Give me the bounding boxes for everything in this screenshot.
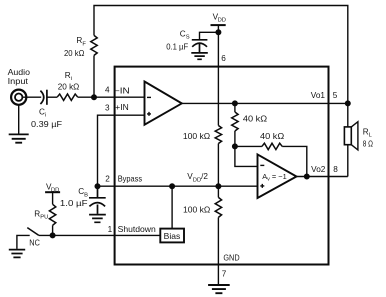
- wire: 40k to inverting node: [234, 131, 236, 146]
- node: shutdown / RPU junction: [50, 233, 55, 238]
- svg-text:5: 5: [333, 91, 338, 100]
- audio jack connector: [11, 90, 26, 105]
- op-amp U1B minus marker: [260, 164, 264, 166]
- node: Vo2: [305, 174, 310, 179]
- wire: VDD bar to RPU: [52, 192, 54, 204]
- svg-text:NC: NC: [29, 238, 40, 247]
- wire: Vo1 node down to 40k input resistor: [234, 103, 236, 112]
- wire: jack to ground: [18, 105, 20, 134]
- svg-text:4: 4: [105, 86, 110, 95]
- node: Vo1 / 40k tap: [233, 101, 238, 106]
- wire: jack to Ci: [22, 96, 41, 98]
- ground: below CS: [191, 53, 208, 59]
- op-amp U1B: [258, 154, 297, 198]
- svg-text:100 kΩ: 100 kΩ: [183, 205, 210, 214]
- wire: speaker bottom to Vo2 row: [347, 145, 349, 177]
- wire: Ri to op-amp -IN (pin 4): [78, 96, 145, 98]
- svg-text:7: 7: [222, 269, 227, 278]
- svg-text:6: 6: [221, 54, 226, 63]
- wire: U1B output Vo2 row to pin 8 and speaker rail: [297, 176, 348, 178]
- svg-text:Input: Input: [8, 76, 29, 86]
- wire: 100k upper to VDD/2 node: [217, 144, 219, 198]
- svg-text:1.0 µF: 1.0 µF: [60, 199, 88, 208]
- node: bias tap on VDD/2 row: [170, 184, 175, 189]
- svg-text:20 kΩ: 20 kΩ: [64, 49, 84, 58]
- resistor 40k feedback (horizontal): [262, 143, 282, 149]
- node: VDD/2: [216, 184, 221, 189]
- resistor 100k upper (VDD to VDD/2): [215, 126, 221, 144]
- resistor 100k lower (VDD/2 to GND): [215, 197, 221, 217]
- wire: RPU to shutdown node: [52, 225, 54, 235]
- wire: inverting node down into U1B minus input: [235, 146, 258, 166]
- svg-text:+IN: +IN: [115, 103, 128, 112]
- svg-text:0.39 µF: 0.39 µF: [31, 120, 62, 129]
- op-amp U1B plus marker: [260, 184, 264, 188]
- power VDD (shutdown pull-up): [45, 191, 60, 193]
- svg-text:DD: DD: [218, 18, 226, 24]
- wire: VDD node to CS: [200, 32, 219, 40]
- wire: 100k lower to GND pin 7 and external ground: [217, 217, 219, 284]
- svg-text:40 kΩ: 40 kΩ: [260, 132, 284, 141]
- svg-text:8 Ω: 8 Ω: [363, 140, 373, 149]
- resistor RF: [91, 35, 97, 55]
- resistor Ri: [57, 94, 78, 100]
- svg-text:GND: GND: [223, 254, 239, 263]
- wire: RF bottom to -IN node: [93, 55, 95, 97]
- ground: below audio jack: [9, 134, 29, 142]
- power VDD (top): [211, 24, 226, 26]
- svg-text:RF: RF: [76, 36, 86, 47]
- wire: shutdown row (pin 1) to Bias block: [39, 234, 161, 236]
- node: bypass: [95, 184, 100, 189]
- svg-text:Av = −1: Av = −1: [262, 172, 287, 183]
- svg-text:RL: RL: [363, 128, 373, 139]
- svg-text:40 kΩ: 40 kΩ: [243, 114, 267, 123]
- svg-text:1: 1: [108, 225, 113, 234]
- svg-text:Bypass: Bypass: [118, 175, 142, 184]
- svg-text:0.1 µF: 0.1 µF: [166, 42, 188, 51]
- svg-text:Shutdown: Shutdown: [118, 225, 157, 234]
- capacitor Ci: [40, 90, 47, 105]
- node: U1B inverting input: [233, 144, 238, 149]
- svg-text:Ri: Ri: [65, 71, 72, 82]
- svg-text:Vo1: Vo1: [311, 91, 326, 100]
- ground: below CB: [89, 215, 106, 223]
- wire: +IN (pin 3) down to bypass node: [98, 115, 145, 186]
- node: Vo1 to speaker rail: [346, 101, 351, 106]
- svg-text:8: 8: [333, 165, 338, 174]
- ground: chip GND: [208, 285, 230, 293]
- wire: 40k feedback to Vo2 node: [282, 146, 307, 176]
- wire: bypass row (pin 2) to op-amp U1B + input: [98, 185, 258, 187]
- switch lever (shutdown switch): [27, 228, 39, 236]
- capacitor CB: [89, 186, 106, 214]
- speaker RL: [344, 122, 358, 150]
- wire: Ci to Ri: [47, 96, 57, 98]
- wire: VDD/2 row down to Bias block: [171, 186, 173, 228]
- node: VDD / CS junction: [216, 30, 221, 35]
- wire: inverting node to 40k feedback: [235, 145, 262, 147]
- Bias block: [160, 229, 184, 243]
- resistor 40k input (vertical): [232, 112, 238, 131]
- svg-text:Vo2: Vo2: [311, 165, 326, 174]
- IC package box U1: [115, 67, 329, 265]
- capacitor CS: [192, 40, 208, 52]
- ground: switch NC terminal: [9, 250, 25, 258]
- svg-text:3: 3: [105, 103, 110, 112]
- wire: VDD rail down through pin 6 into divider: [217, 25, 219, 125]
- svg-text:2: 2: [105, 175, 110, 184]
- svg-text:Bias: Bias: [164, 232, 181, 241]
- svg-text:CB: CB: [78, 187, 88, 198]
- svg-text:RPU: RPU: [34, 209, 48, 220]
- node: -IN junction: [92, 95, 97, 100]
- svg-text:Ci: Ci: [39, 107, 46, 118]
- resistor RPU: [49, 204, 55, 225]
- op-amp U1A: [145, 82, 182, 125]
- wire: op-amp U1A output Vo1 row to pin 5 and speaker rail: [182, 102, 348, 104]
- svg-text:CS: CS: [180, 30, 190, 41]
- op-amp U1A minus marker: [147, 96, 151, 98]
- svg-text:20 kΩ: 20 kΩ: [58, 82, 80, 91]
- svg-text:−IN: −IN: [114, 87, 130, 96]
- wire: switch left contact to ground: [17, 235, 30, 249]
- svg-text:VDD/2: VDD/2: [187, 172, 208, 183]
- wire: top feedback rail from RF to speaker: [94, 6, 348, 127]
- svg-text:100 kΩ: 100 kΩ: [183, 132, 210, 141]
- op-amp U1A plus marker: [147, 112, 151, 116]
